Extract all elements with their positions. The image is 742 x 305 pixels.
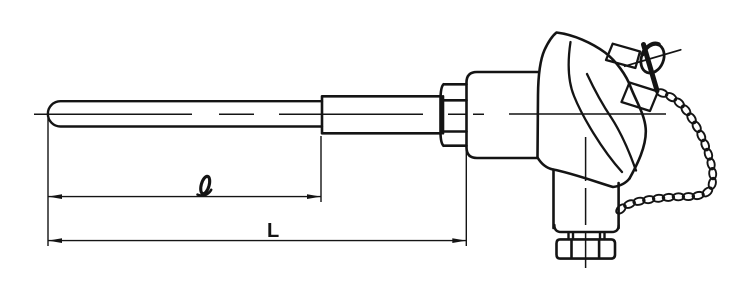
svg-text:L: L (267, 220, 279, 242)
